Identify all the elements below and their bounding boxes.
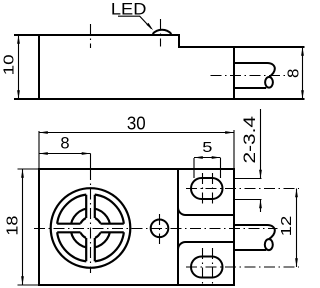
- vertical centerline of sensing face: [90, 169, 92, 273]
- mounting hole vertical centerline: [159, 214, 161, 244]
- LED leader arrowhead: [146, 23, 153, 30]
- body outline top view: [14, 35, 305, 99]
- horizontal centerline (through face, hole and cable): [34, 228, 278, 230]
- svg-text:30: 30: [127, 112, 146, 133]
- svg-text:8: 8: [286, 69, 303, 78]
- upper mounting tab lower edge: [178, 208, 234, 216]
- mounting hole: [151, 220, 169, 238]
- dimension 8 (left edge to face center): [39, 133, 91, 169]
- sensing face centerline (top view): [90, 24, 92, 48]
- svg-text:8: 8: [60, 133, 69, 152]
- LED centerline: [160, 19, 162, 47]
- upper slot: [186, 173, 299, 205]
- dimension 10 (height, left): [1, 35, 20, 99]
- face edge line: [177, 169, 179, 285]
- svg-text:12: 12: [279, 216, 295, 237]
- lower mounting tab upper edge: [178, 242, 234, 250]
- dimension 5 (slot length): [194, 139, 221, 178]
- LED bump: [153, 30, 172, 34]
- cable centerline (top view): [211, 75, 290, 77]
- svg-text:LED: LED: [111, 0, 147, 18]
- dimension 30 (overall width): [39, 112, 234, 169]
- cable (bottom view): [235, 225, 275, 250]
- svg-text:10: 10: [1, 54, 17, 75]
- dimension 2-3.4 (two slots, width 3.4): [234, 109, 262, 212]
- svg-text:5: 5: [202, 139, 212, 156]
- svg-text:18: 18: [5, 216, 22, 236]
- svg-text:2-3.4: 2-3.4: [241, 116, 259, 164]
- dimension 8 (height, right of top view): [286, 47, 304, 99]
- dimension 18 (overall height): [5, 169, 39, 285]
- body outline bottom view: [39, 169, 234, 285]
- dimension 12 (slot centre spacing): [279, 189, 298, 268]
- cable (top view): [235, 63, 275, 88]
- LED leader line: [118, 16, 152, 29]
- sensing face (pot core with cross slots): [51, 188, 131, 268]
- lower slot: [186, 248, 299, 284]
